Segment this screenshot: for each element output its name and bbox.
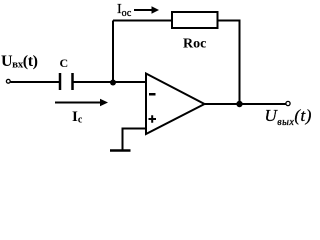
svg-text:C: C bbox=[60, 56, 69, 70]
svg-text:Roc: Roc bbox=[183, 37, 206, 52]
